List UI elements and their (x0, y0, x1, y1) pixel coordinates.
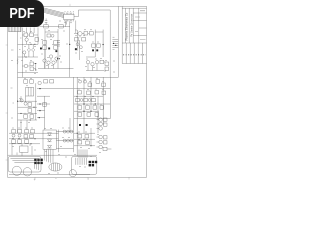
value labels lower-left (12, 128, 36, 150)
wire right bus (109, 27, 111, 78)
U1 bottom pins (65, 20, 73, 22)
junction h4 (90, 111, 91, 112)
resistor R26 (30, 115, 34, 118)
wire rail y104 (37, 103, 50, 105)
zone number mark 1 (34, 178, 36, 180)
wire q cluster links (45, 49, 57, 68)
capacitor C11 can (69, 170, 76, 177)
resistor R1 (59, 25, 64, 28)
zone number mark 3 (88, 178, 89, 180)
connector P1 (49, 163, 62, 171)
wire v91 low (90, 128, 92, 146)
zone tick bottom 1 (34, 177, 36, 179)
capacitor C5 dark (75, 48, 77, 50)
wire rail y57 (18, 56, 38, 58)
junction m2 (59, 58, 60, 59)
wire drop c (25, 28, 27, 34)
transistor Q11 (79, 46, 82, 49)
resistor R43 (100, 106, 104, 109)
wire rail y101 (18, 100, 37, 102)
resistor R25 (24, 115, 28, 118)
junction n3 (25, 56, 26, 57)
LED cluster1 circle 1 (99, 118, 103, 122)
wire rail v77 tall (76, 77, 78, 156)
resistor R30 (88, 83, 92, 86)
resistor R40 (78, 106, 82, 109)
resistor R34 (87, 91, 91, 94)
resistor R18 (100, 60, 104, 63)
connector J1 (9, 26, 22, 32)
junction k1 (77, 133, 78, 134)
wire rail v45 (44, 29, 46, 69)
wire rail h88 right (74, 88, 110, 90)
resistor R3 (24, 33, 28, 37)
pad cluster right dark 2 (92, 161, 94, 163)
wire rail v77 upper (76, 30, 78, 51)
resistor R11 (54, 46, 58, 49)
zone tick left 3 (6, 159, 8, 161)
pad cluster right dark 3 (95, 161, 97, 163)
resistor R16 (92, 44, 96, 47)
wire row1 rail (56, 131, 73, 133)
wire rail bottom (9, 173, 90, 175)
resistor R36 (102, 91, 106, 94)
value labels lower-right (74, 132, 101, 167)
junction f4 (30, 119, 31, 120)
resistor R61 (78, 135, 82, 138)
junction comb 1 (113, 43, 114, 44)
wire g shorts (37, 111, 45, 118)
wire rail v110 low (109, 77, 111, 118)
wire rail y77 (18, 76, 119, 78)
svg-text:Phoenix Electronics Co: Phoenix Electronics Co (125, 12, 129, 40)
capacitor C10 can (23, 168, 31, 176)
wire g vertical (44, 96, 46, 129)
resistor R14 (75, 38, 79, 42)
resistor R21 (24, 80, 28, 83)
junction f2 (33, 107, 34, 108)
resistor R62 (85, 135, 89, 138)
zone tick left 2 (6, 112, 8, 114)
title block bottom rule (122, 42, 146, 44)
svg-text:PV Series Crossover: PV Series Crossover (130, 14, 133, 37)
zone tick top (69, 4, 71, 7)
value labels upper-mid (41, 31, 68, 66)
value labels lower-center (44, 128, 70, 174)
wire led2 stubs (97, 137, 99, 147)
indicator D11 (70, 139, 73, 142)
wire i drops (12, 143, 32, 156)
resistor R35 (95, 91, 99, 94)
junction f3 (20, 113, 21, 114)
wire pair top link right (95, 31, 103, 33)
border frame (8, 6, 147, 177)
resistor R23 (28, 103, 32, 106)
resistor R22 (30, 80, 34, 83)
resistor R7 (30, 67, 34, 70)
title block cell rule 1 (133, 12, 146, 14)
junction n4 (35, 63, 36, 64)
wire data bus to U1 (44, 8, 65, 18)
resistor R53 (18, 130, 22, 133)
resistor R31 (96, 80, 100, 83)
wire rail k139 (74, 138, 95, 140)
transistor Q14 (95, 61, 98, 64)
transistor Q18 (79, 80, 82, 83)
diode D5 (48, 145, 52, 148)
transistor Q7 (47, 61, 50, 64)
capacitor C12 stack (57, 41, 60, 46)
wire rail h111 right (74, 110, 99, 112)
resistor R6 (30, 62, 34, 65)
transistor Q17 (38, 81, 41, 84)
junction m1 (57, 58, 58, 59)
wire rail y88 (37, 88, 74, 90)
resistor R41 (86, 106, 90, 109)
wire q3 links (22, 63, 35, 71)
junction center bus (69, 44, 70, 45)
wire rail h96 right (74, 95, 103, 97)
transistor Q26 (51, 34, 54, 37)
title block outer column line (117, 6, 119, 77)
transistor Q20 (80, 99, 83, 102)
resistor R57 (30, 135, 34, 138)
wire rail v58 (57, 29, 59, 69)
junction g3 (39, 110, 40, 111)
indicator D6 (63, 130, 66, 133)
indicator D7 (67, 130, 70, 133)
title block left line (121, 6, 123, 63)
indicator D8 (70, 130, 73, 133)
diode D2 (32, 48, 35, 51)
indicator D10 (67, 139, 70, 142)
wire rail y96 (37, 95, 50, 97)
resistor R63 (78, 141, 82, 144)
transistor Q15 (20, 99, 23, 102)
pad cluster right dark 1 (89, 161, 91, 163)
wire squiggle (16, 59, 19, 65)
transistor Q10 (76, 43, 79, 46)
resistor R10 (54, 41, 58, 44)
transistor Q22 (12, 134, 15, 137)
junction h1 (83, 103, 84, 104)
resistor R38 (84, 98, 88, 101)
zone tick bottom 3 (128, 177, 130, 179)
LED cluster2 circle 3 (99, 145, 103, 149)
title cell text 1 (140, 10, 145, 12)
comb labels right edge (113, 37, 116, 72)
P1 pins (52, 163, 60, 171)
junction g2 (39, 103, 40, 104)
resistor R37 (76, 98, 80, 101)
junction i1 (30, 143, 31, 144)
J1 pins (10, 26, 21, 32)
junction g1 (39, 88, 40, 89)
capacitor C2 dark (40, 48, 42, 50)
resistor R64 (86, 141, 90, 144)
resistor R19 (105, 62, 109, 65)
junction g4 (39, 117, 40, 118)
wire rail v84 (83, 77, 85, 133)
wire pair top link (45, 31, 58, 33)
pin number marks top (59, 12, 74, 23)
title block column b (128, 8, 130, 43)
LED cluster1 circle 3 (99, 127, 103, 131)
resistor R27 (44, 80, 48, 83)
zone tick left 1 (6, 44, 8, 46)
wire led1 stubs (97, 120, 99, 129)
relay K1 (20, 146, 28, 152)
PDF badge (0, 0, 44, 27)
value labels upper-left (19, 32, 36, 74)
wire bundle right (79, 150, 87, 158)
wire diode drops (24, 44, 33, 57)
diode D4 (48, 139, 52, 142)
pad cluster left dark 2 (37, 159, 39, 161)
bridge rectifier BR1 (43, 130, 56, 149)
LED cluster1 circle 2 (99, 122, 103, 126)
capacitor C4 dark (55, 50, 57, 52)
net name marks gutter (11, 50, 15, 118)
wire ground loop left (8, 156, 41, 172)
resistor R29 (43, 103, 47, 106)
resistor R20 (105, 67, 109, 70)
resistor R65 (47, 34, 51, 37)
transistor Q21 (88, 99, 91, 102)
transistor Q4 (49, 55, 52, 58)
revision table column 1 (125, 43, 127, 64)
wire v58 (57, 130, 59, 153)
capacitor C8 dark (79, 124, 81, 126)
wire rail y155 (8, 154, 97, 156)
capacitor C1 (45, 18, 48, 24)
resistor R9 (43, 46, 47, 49)
revision table entry row (123, 54, 146, 56)
title block column d (138, 8, 140, 43)
U2 inner pins (28, 87, 31, 96)
wire q9 links (74, 33, 89, 37)
connector comb E (112, 39, 118, 47)
title cell text 4 (140, 39, 146, 41)
transistor Q5 (55, 57, 58, 60)
resistor R32 (102, 83, 106, 86)
connector P2 pins (76, 158, 87, 165)
transistor Q23 (18, 134, 21, 137)
wire rail v103 low (102, 77, 104, 125)
wire r51 out (107, 148, 111, 150)
wire v70 (69, 118, 71, 132)
resistor R58 (12, 140, 16, 143)
transistor Q12 (86, 61, 89, 64)
pad cluster left dark 3 (40, 159, 42, 161)
pad cluster left dark (34, 159, 36, 161)
resistor R28 (50, 80, 54, 83)
resistor R24 (28, 109, 32, 112)
resistor R54 (25, 130, 29, 133)
transistor Q6 (43, 59, 46, 62)
title cell text 2 (135, 16, 140, 18)
diode D1 (27, 48, 30, 51)
wire rail y72 (18, 72, 38, 74)
value labels upper-right (75, 30, 107, 71)
wire bus b (21, 28, 23, 78)
title block column c (132, 8, 134, 43)
junction k3 (90, 145, 91, 146)
resistor R42 (93, 106, 97, 109)
diode D3 (48, 133, 52, 136)
resistor R48 (103, 123, 107, 126)
wire inner loop line 2 (14, 163, 34, 169)
resistor R39 (92, 98, 96, 101)
pad cluster left dark 6 (40, 162, 42, 164)
resistor R4 (30, 33, 34, 37)
junction n1 (30, 44, 31, 45)
pad cluster right dark 5 (92, 164, 94, 166)
wire drop e (33, 28, 35, 34)
title block cell rule 2 (133, 20, 146, 22)
transistor Q2 (23, 51, 26, 54)
LED cluster2 circle 1 (99, 135, 103, 139)
capacitor C6 dark (92, 49, 94, 51)
wire rail y143 (9, 143, 40, 145)
resistor R52 (12, 130, 16, 133)
title block column a (124, 8, 126, 43)
pad cluster left dark 5 (37, 162, 39, 164)
capacitor C3 dark (48, 48, 50, 50)
wire rail k145 (74, 145, 95, 147)
title cell text 3 (135, 31, 138, 33)
resistor R33 (78, 91, 82, 94)
revision table column 5 (141, 43, 143, 64)
zone number mark 2 (55, 178, 56, 180)
wire rail k133 (74, 132, 95, 134)
junction k2 (83, 139, 84, 140)
resistor R59 (18, 140, 22, 143)
junction n2 (34, 44, 35, 45)
resistor R50 (103, 141, 107, 144)
wire bundle to P1 (44, 150, 53, 164)
zone tick bottom 2 (87, 177, 89, 179)
junction n5 (35, 69, 36, 70)
wire rail y120 (18, 119, 37, 121)
IC U2 (26, 87, 34, 96)
junction comb 2 (115, 45, 116, 46)
pad cluster right dark 4 (89, 164, 91, 166)
transistor Q19 (84, 80, 87, 83)
resistor R5 (35, 38, 39, 41)
resistor R8 (43, 41, 47, 44)
wire rail y113 (18, 112, 37, 114)
U1 top pins (65, 13, 73, 15)
wire rail v98 (97, 96, 99, 133)
resistor R55 (31, 130, 35, 133)
junction h3 (83, 111, 84, 112)
resistor R56 (24, 135, 28, 138)
wire q12 links (86, 57, 105, 71)
pad cluster left dark 4 (34, 162, 36, 164)
resistor R46 (95, 113, 99, 116)
resistor R2 (44, 25, 49, 28)
revision table column 2 (129, 43, 131, 64)
wire inner loop line 1 (10, 159, 38, 170)
wire rail y44 (18, 43, 38, 45)
wire tall rail v73 (73, 77, 75, 152)
wire rail h118 right (74, 118, 110, 120)
resistor R45 (87, 113, 91, 116)
wire rail v103 (102, 30, 104, 58)
title block top rule (122, 7, 146, 9)
transistor Q16 (24, 102, 27, 105)
resistor R12 (84, 32, 88, 36)
capacitor C9 dark (86, 124, 88, 126)
wire U1 output top (74, 10, 110, 27)
wire row3 rail (56, 147, 73, 149)
resistor R15 (82, 38, 86, 42)
resistor R47 (103, 118, 107, 121)
wire rail h104 right (74, 103, 110, 105)
resistor R60 (25, 140, 29, 143)
wire left bus (17, 32, 19, 134)
resistor R13 (89, 32, 93, 36)
wire top rail (9, 26, 71, 28)
revision table bottom rule (122, 63, 146, 65)
wire rail v95 (94, 30, 96, 58)
resistor R44 (78, 113, 82, 116)
resistor R49 (103, 136, 107, 139)
wire rail y138 (9, 138, 59, 140)
junction i2 (34, 138, 35, 139)
transistor Q8 (52, 61, 55, 64)
transformer T1 can (12, 166, 21, 175)
wire rail y68 (38, 68, 74, 70)
wire rail y107 (18, 106, 37, 108)
junction h2 (95, 103, 96, 104)
resistor R17 (97, 44, 101, 47)
wire ground loop right (72, 156, 97, 174)
wire rail y133 (9, 132, 59, 134)
junction f1 (17, 101, 18, 102)
wire rail v91a (90, 77, 92, 111)
wire v79 stub (79, 40, 81, 60)
LED cluster2 circle 2 (99, 140, 103, 144)
title block cell rule 4 (133, 35, 146, 37)
junction n6 (103, 44, 104, 45)
resistor R51 (103, 147, 107, 150)
value labels mid-right (76, 78, 104, 134)
transistor Q13 (91, 62, 94, 65)
transistor Q9 (78, 31, 82, 35)
value labels mid-left (19, 78, 33, 122)
transistor Q1 (25, 38, 28, 41)
wire q1 links (22, 35, 38, 44)
wire row2 rail (56, 140, 73, 142)
IC U1 (64, 14, 74, 19)
indicator D9 (63, 139, 66, 142)
wire v77 extension (75, 21, 77, 34)
wire U1 pin drop (65, 21, 69, 78)
wire f cluster verticals (21, 83, 36, 129)
title block cell rule 3 (139, 27, 147, 29)
capacitor C7 dark (96, 49, 98, 51)
wire drop f (37, 28, 39, 45)
transistor Q3 (24, 64, 28, 68)
revision table column 4 (137, 43, 139, 64)
wire drop d (29, 28, 31, 34)
revision table column 3 (133, 43, 135, 64)
